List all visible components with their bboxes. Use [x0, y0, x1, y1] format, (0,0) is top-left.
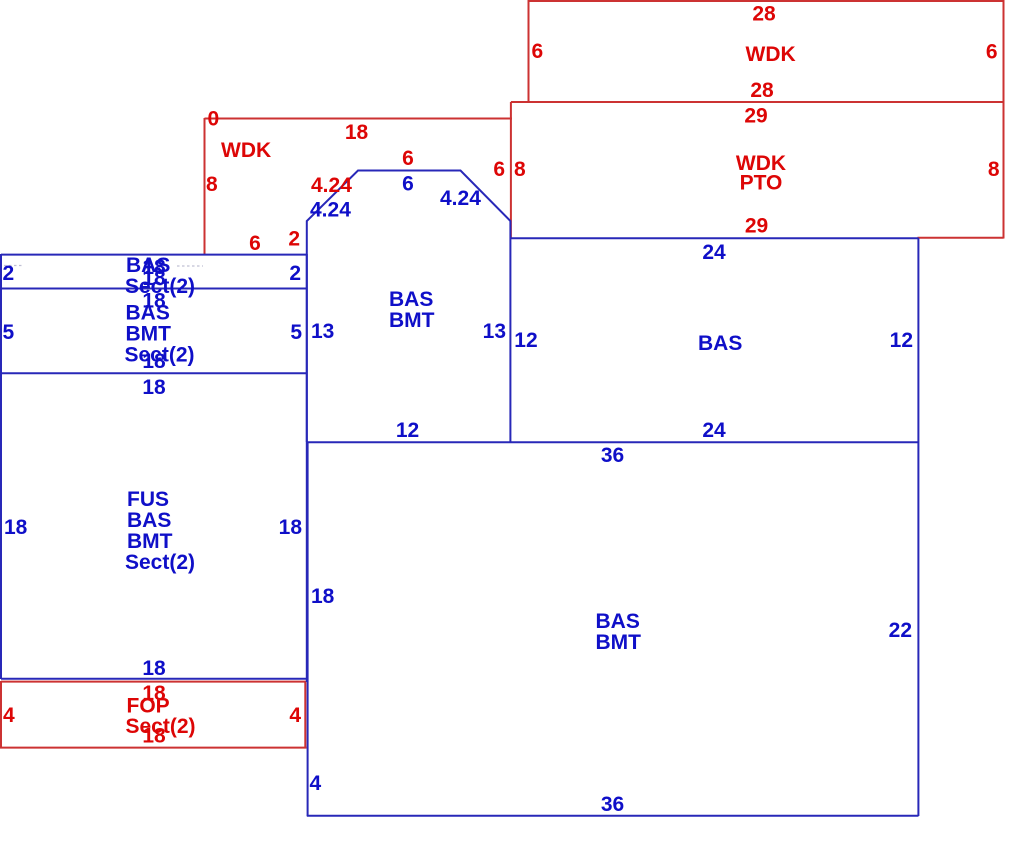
- wire: FOP right edge: [304, 681, 306, 748]
- wire: WDK/WDK-PTO shared edge: [511, 101, 1004, 103]
- wire: FUS bottom edge: [1, 678, 307, 680]
- svg-text:8: 8: [988, 158, 1000, 181]
- svg-text:2: 2: [288, 228, 300, 251]
- wire: FOP top edge: [1, 681, 306, 683]
- wire: WDK PTO bottom edge: [918, 237, 1004, 239]
- wire: BAS BMT Sect / FUS divider: [1, 372, 307, 374]
- svg-text:24: 24: [702, 419, 726, 442]
- svg-text:18: 18: [142, 350, 166, 373]
- wire: left column right edge: [306, 254, 308, 682]
- svg-text:Sect(2): Sect(2): [125, 551, 195, 574]
- svg-text:6: 6: [402, 147, 414, 170]
- svg-text:8: 8: [514, 158, 526, 181]
- svg-text:22: 22: [889, 619, 912, 642]
- svg-text:0: 0: [208, 108, 220, 131]
- svg-text:PTO: PTO: [740, 172, 783, 195]
- wire: right BAS / BAS BMT right edge: [917, 238, 919, 816]
- wire: BAS Sect / BAS BMT Sect divider: [1, 288, 307, 290]
- svg-text:5: 5: [3, 321, 15, 344]
- wire: WDK PTO left edge: [510, 102, 512, 238]
- svg-text:8: 8: [206, 173, 218, 196]
- svg-text:5: 5: [290, 321, 302, 344]
- wire: left column left edge: [0, 254, 2, 679]
- wire: left WDK deck left edge: [204, 118, 206, 255]
- svg-text:BAS: BAS: [389, 288, 433, 311]
- svg-text:4: 4: [3, 704, 15, 727]
- svg-text:6: 6: [493, 158, 505, 181]
- svg-text:18: 18: [142, 267, 166, 290]
- svg-text:12: 12: [890, 329, 913, 352]
- wire: top WDK deck top edge: [528, 0, 1004, 2]
- wire: BAS BMT top edge: [307, 441, 919, 443]
- svg-text:4: 4: [310, 772, 322, 795]
- svg-text:18: 18: [345, 121, 369, 144]
- svg-text:6: 6: [532, 40, 544, 63]
- wire: left column top edge (BAS Sect top): [1, 254, 307, 256]
- svg-text:13: 13: [311, 320, 334, 343]
- svg-text:4: 4: [289, 704, 301, 727]
- svg-text:BAS: BAS: [596, 610, 640, 633]
- svg-text:4.24: 4.24: [310, 199, 351, 222]
- svg-text:29: 29: [745, 215, 768, 238]
- svg-text:12: 12: [514, 329, 537, 352]
- svg-text:6: 6: [249, 232, 261, 255]
- svg-text:18: 18: [142, 290, 166, 313]
- wire: left WDK deck top edge: [205, 118, 513, 120]
- svg-text:6: 6: [402, 173, 414, 196]
- svg-text:12: 12: [396, 419, 419, 442]
- svg-text:28: 28: [752, 3, 776, 26]
- wire: BAS BMT left edge: [307, 442, 309, 816]
- svg-text:2: 2: [3, 262, 15, 285]
- svg-text:4.24: 4.24: [440, 187, 481, 210]
- svg-text:BMT: BMT: [127, 530, 173, 553]
- svg-text:BAS: BAS: [127, 509, 171, 532]
- svg-text:18: 18: [142, 682, 166, 705]
- svg-text:FUS: FUS: [127, 488, 169, 511]
- svg-text:18: 18: [142, 657, 166, 680]
- svg-text:6: 6: [986, 41, 998, 64]
- svg-text:BAS: BAS: [698, 332, 742, 355]
- svg-text:WDK: WDK: [221, 139, 271, 162]
- wire: WDK PTO right edge: [1003, 102, 1005, 239]
- svg-text:BMT: BMT: [126, 323, 172, 346]
- svg-text:18: 18: [311, 585, 335, 608]
- svg-text:BMT: BMT: [596, 631, 642, 654]
- wire: FOP bottom edge: [0, 747, 307, 749]
- wire: top WDK deck right edge: [1003, 0, 1005, 102]
- svg-text:18: 18: [4, 516, 28, 539]
- svg-text:36: 36: [601, 793, 624, 816]
- svg-text:18: 18: [142, 376, 166, 399]
- wire: right BAS top edge: [511, 237, 919, 239]
- svg-text:WDK: WDK: [746, 43, 796, 66]
- wire: center BAS BMT pentagon outline: [307, 171, 511, 443]
- wire: hidden dashed line: [4, 265, 22, 267]
- svg-text:13: 13: [483, 320, 506, 343]
- svg-text:18: 18: [279, 516, 303, 539]
- svg-text:24: 24: [702, 241, 726, 264]
- wire: top WDK deck left edge: [528, 0, 530, 102]
- svg-text:28: 28: [750, 79, 774, 102]
- svg-text:4.24: 4.24: [311, 174, 352, 197]
- svg-text:36: 36: [601, 444, 624, 467]
- svg-text:18: 18: [142, 725, 166, 748]
- svg-text:BMT: BMT: [389, 309, 435, 332]
- wire: BAS BMT bottom edge: [307, 815, 919, 817]
- wire: FOP left edge: [0, 681, 2, 748]
- svg-text:29: 29: [744, 105, 767, 128]
- svg-text:2: 2: [289, 262, 301, 285]
